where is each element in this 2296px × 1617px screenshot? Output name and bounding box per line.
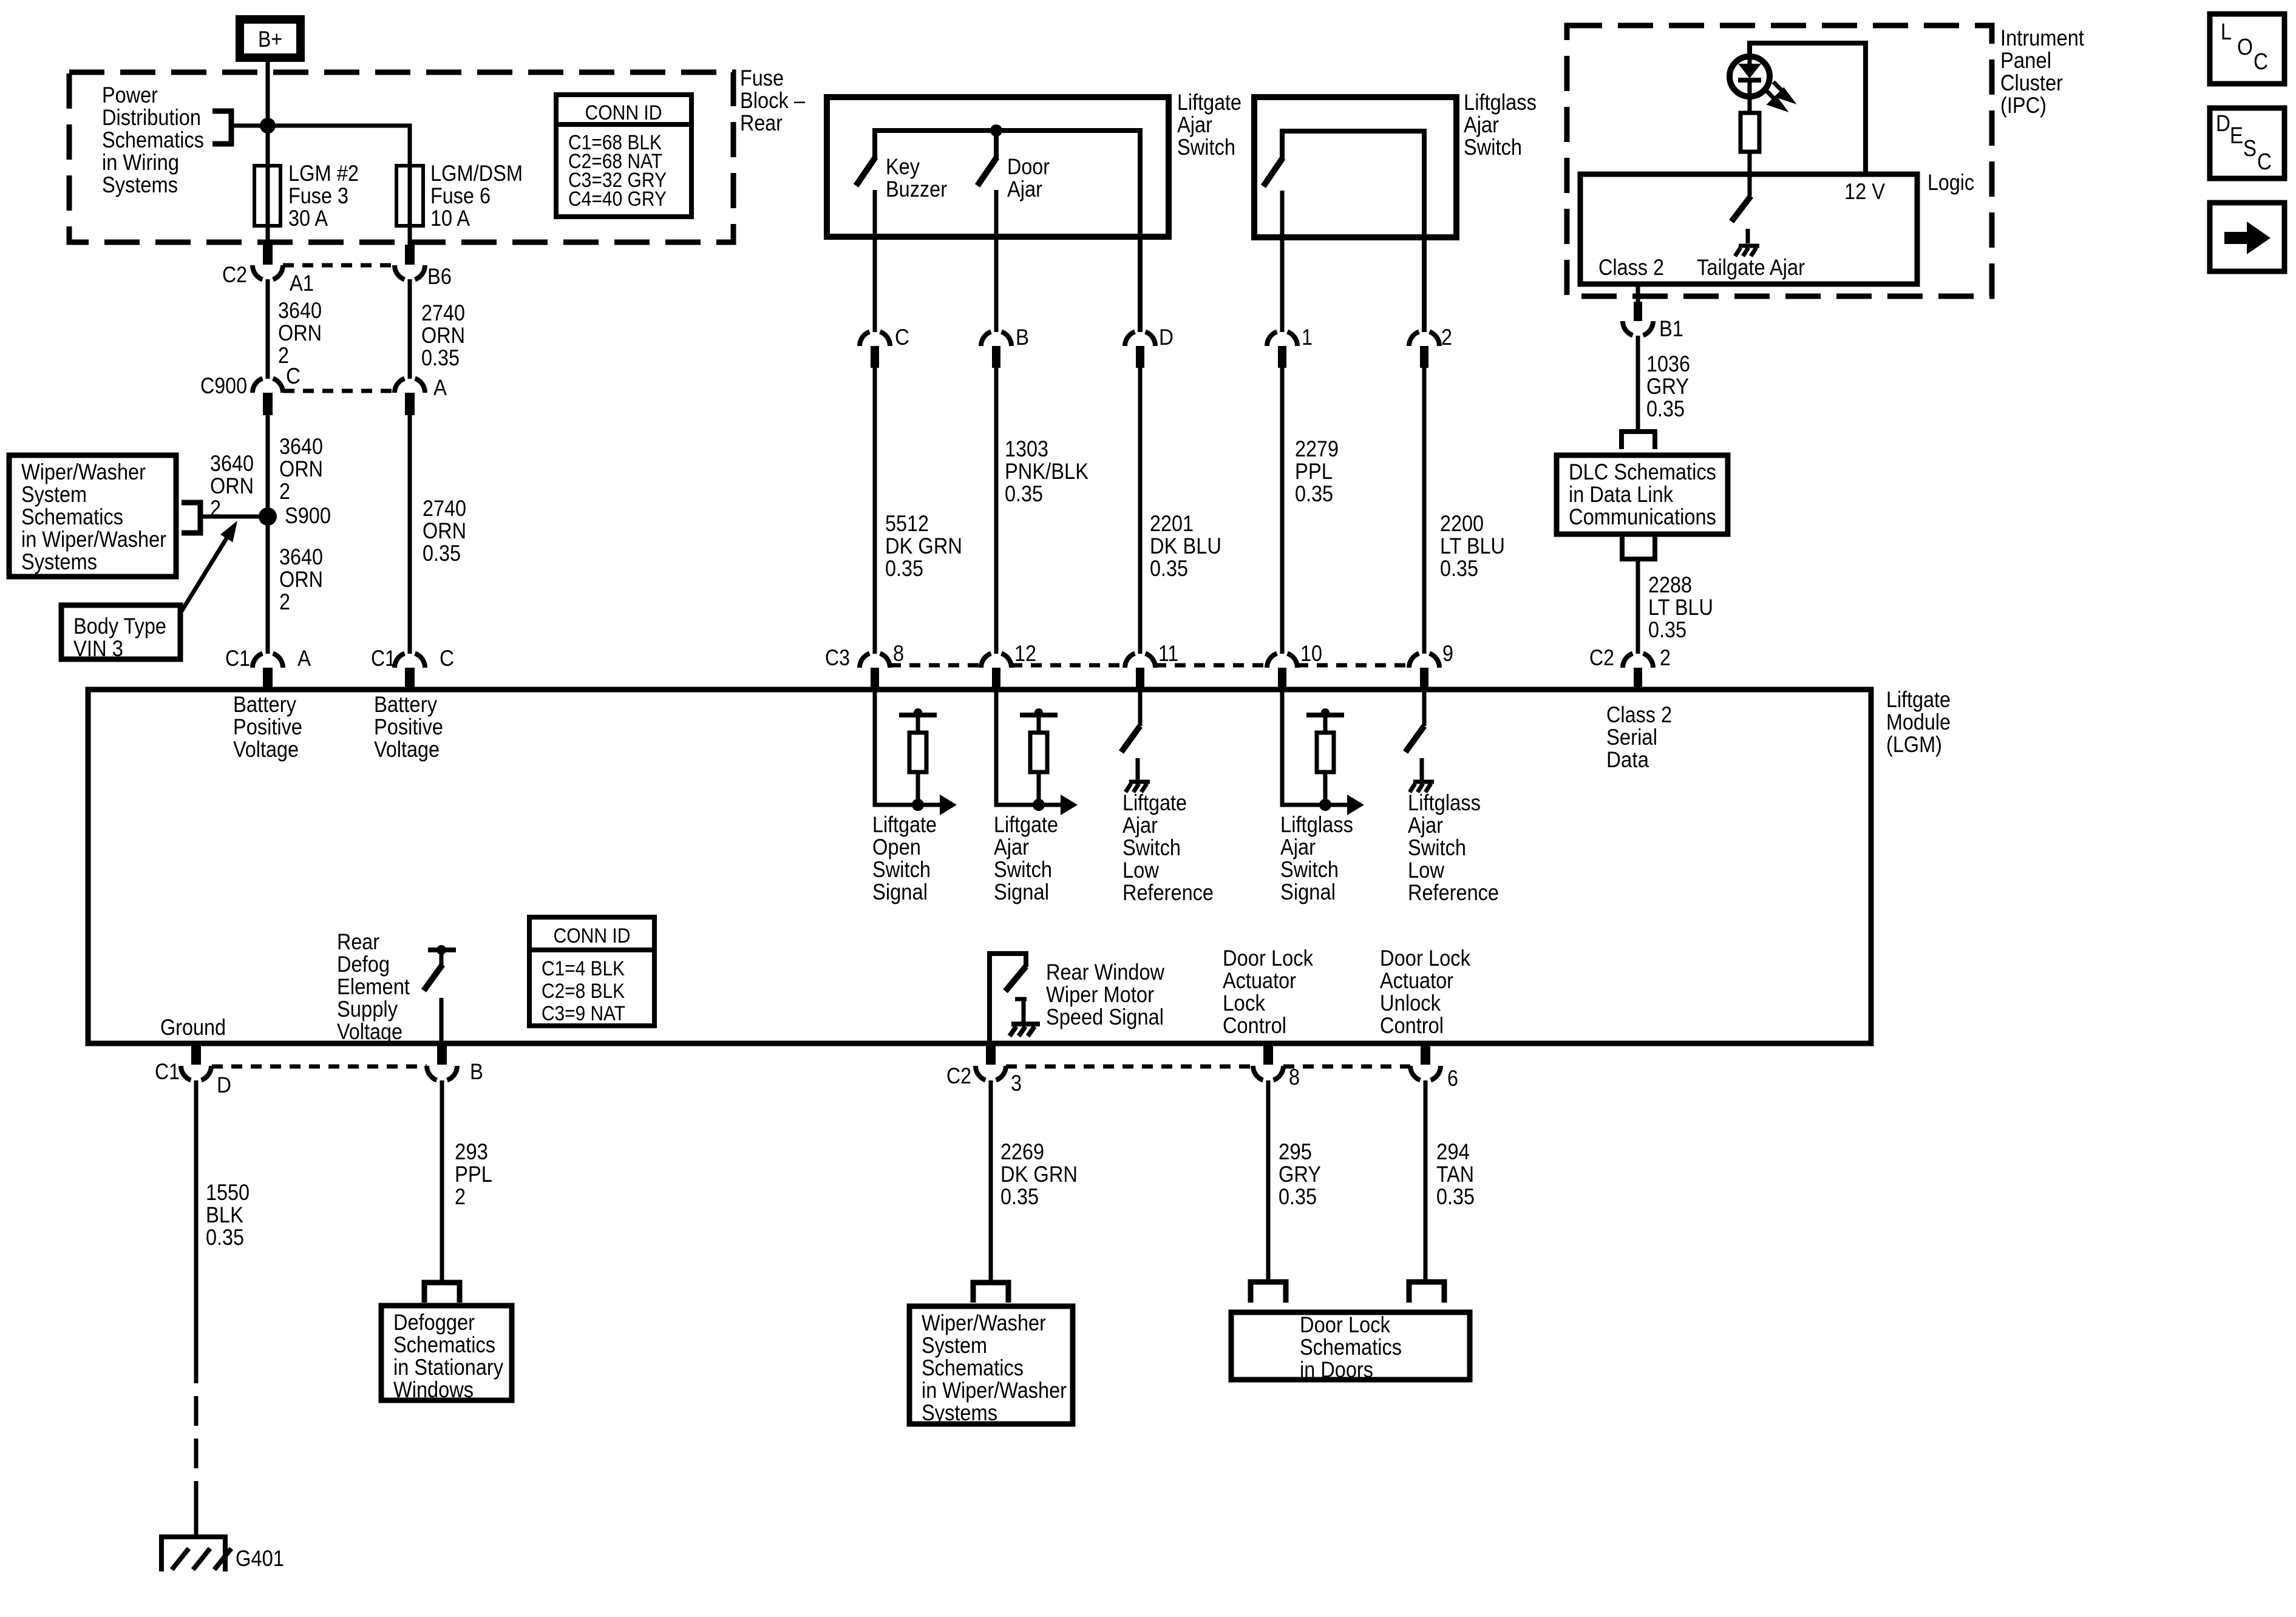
svg-text:Class 2: Class 2: [1598, 255, 1664, 280]
fuse LGM/DSM Fuse 6 10 A: [396, 166, 423, 226]
svg-text:Communications: Communications: [1569, 504, 1716, 529]
svg-text:0.35: 0.35: [1648, 617, 1686, 642]
svg-text:11: 11: [1158, 641, 1178, 666]
svg-text:Liftglass: Liftglass: [1464, 90, 1537, 115]
connector C900 pin A (dome): [395, 379, 425, 393]
svg-text:S: S: [2243, 136, 2257, 161]
node on switch bus: [990, 124, 1002, 137]
svg-text:1: 1: [1302, 325, 1313, 350]
dashed connector tie C-A: [284, 389, 394, 393]
svg-text:E: E: [2230, 123, 2243, 149]
svg-text:Unlock: Unlock: [1380, 991, 1441, 1015]
connector C900 pin C (dome): [253, 379, 283, 393]
wire bracket to S900: [200, 515, 264, 519]
svg-text:Wiper/Washer: Wiper/Washer: [922, 1310, 1046, 1335]
svg-text:O: O: [2237, 35, 2253, 60]
connector pin C (dome): [860, 332, 890, 347]
svg-text:2: 2: [279, 479, 290, 504]
svg-text:C2: C2: [946, 1063, 971, 1088]
wire pin D down to module: [1138, 368, 1143, 654]
dashed connector tie 8-6: [1283, 1065, 1410, 1069]
svg-text:DLC Schematics: DLC Schematics: [1569, 459, 1716, 484]
Instrument Panel Cluster dashed outline: [1567, 25, 1992, 296]
svg-text:ORN: ORN: [279, 567, 323, 592]
svg-text:Ajar: Ajar: [994, 835, 1029, 859]
svg-text:in Wiring: in Wiring: [102, 150, 179, 175]
Fuse Block - Rear dashed outline: [69, 72, 733, 242]
svg-text:Low: Low: [1408, 858, 1444, 883]
svg-text:0.35: 0.35: [1000, 1184, 1039, 1209]
svg-text:2269: 2269: [1000, 1139, 1044, 1164]
svg-text:Voltage: Voltage: [337, 1019, 402, 1044]
dashed connector tie A1-B6: [283, 263, 395, 268]
dashed connector tie D-B: [212, 1065, 427, 1069]
svg-text:9: 9: [1442, 641, 1453, 666]
svg-text:ORN: ORN: [210, 473, 254, 498]
svg-text:Switch: Switch: [1408, 835, 1466, 860]
CONN ID table (module): [529, 917, 654, 1026]
svg-text:2288: 2288: [1648, 572, 1692, 597]
svg-text:0.35: 0.35: [1295, 481, 1333, 506]
svg-text:Ground: Ground: [160, 1015, 226, 1040]
internal ground: [1126, 782, 1150, 792]
connector stub below module at x=1632: [986, 1046, 996, 1065]
svg-text:G401: G401: [236, 1546, 284, 1571]
internal supply tee: [1020, 713, 1058, 717]
ground G401: [161, 1537, 225, 1571]
Body Type VIN 3 box: [61, 605, 180, 659]
svg-text:Cluster: Cluster: [2000, 70, 2063, 95]
splice S900: [259, 507, 277, 526]
svg-text:CONN ID: CONN ID: [554, 924, 631, 947]
wire pin 1 down to module: [1280, 368, 1285, 654]
connector C2 pin A1 (cup): [263, 245, 273, 265]
internal pull-up resistor: [1030, 733, 1047, 772]
internal Rear Window Wiper speed switch: [990, 954, 1026, 1043]
svg-text:D: D: [217, 1073, 231, 1097]
connector C3 pin 10 (dome): [1267, 654, 1297, 668]
connector pin D (dome): [1125, 332, 1155, 347]
switch Tailgate Ajar: [1731, 196, 1751, 222]
svg-text:1550: 1550: [206, 1180, 250, 1205]
svg-text:C3=9 NAT: C3=9 NAT: [542, 1002, 625, 1025]
internal Rear Defog supply tee: [428, 947, 456, 952]
connector stub below module at x=728: [437, 1046, 447, 1065]
signal arrow: [1347, 795, 1364, 815]
svg-text:Door Lock: Door Lock: [1380, 946, 1470, 971]
svg-text:Fuse 3: Fuse 3: [288, 183, 348, 208]
svg-text:LGM #2: LGM #2: [288, 161, 359, 186]
connector pin 2 (dome): [1409, 332, 1439, 347]
svg-text:Door: Door: [1007, 154, 1050, 179]
fuse LGM #2 Fuse 3 30 A: [254, 166, 280, 226]
DESC nav box: [2210, 108, 2284, 178]
svg-text:Schematics: Schematics: [393, 1332, 495, 1357]
svg-text:GRY: GRY: [1646, 374, 1689, 399]
wire DLC to module pin C2 2: [1636, 559, 1640, 654]
wire A1 to C900 C: [266, 279, 270, 379]
svg-text:B6: B6: [427, 264, 452, 289]
pin wire into module at x=1441: [875, 690, 940, 805]
svg-text:12 V: 12 V: [1844, 179, 1885, 204]
svg-text:ORN: ORN: [421, 323, 465, 348]
Liftgate Module (LGM) box: [88, 690, 1871, 1043]
junction: [1319, 799, 1331, 811]
internal wiper ground: [1011, 1022, 1040, 1026]
bracket to Power Distribution Schematics: [212, 111, 231, 144]
svg-text:10: 10: [1300, 641, 1322, 666]
svg-text:294: 294: [1436, 1139, 1470, 1164]
svg-text:C: C: [286, 364, 301, 388]
svg-text:Signal: Signal: [872, 880, 928, 904]
svg-text:(IPC): (IPC): [2000, 93, 2046, 118]
connector C2 pin B6 (cup): [405, 245, 415, 265]
svg-text:Switch: Switch: [994, 857, 1052, 882]
svg-text:(LGM): (LGM): [1886, 732, 1942, 757]
svg-text:0.35: 0.35: [1005, 481, 1043, 506]
internal switch: [1121, 726, 1140, 752]
wire B1 to DLC: [1636, 336, 1640, 432]
Liftgate Ajar Switch box: [827, 97, 1169, 237]
svg-text:3640: 3640: [210, 451, 254, 476]
svg-text:C3: C3: [825, 645, 850, 670]
svg-text:Class 2: Class 2: [1606, 702, 1672, 727]
svg-text:TAN: TAN: [1436, 1162, 1474, 1187]
off-page bracket to DLC: [1622, 432, 1655, 449]
svg-text:Door Lock: Door Lock: [1300, 1312, 1390, 1337]
svg-text:Buzzer: Buzzer: [886, 177, 947, 202]
pin wire into module at x=2112: [1282, 690, 1348, 805]
svg-text:5512: 5512: [885, 511, 929, 536]
svg-text:System: System: [922, 1333, 987, 1358]
dashed connector tie C3 row: [890, 663, 981, 668]
connector C1 pin C (dome): [395, 654, 425, 668]
svg-text:Actuator: Actuator: [1380, 968, 1453, 993]
svg-text:1303: 1303: [1005, 436, 1048, 461]
off-page bracket to Wiper/Washer Schematics: [973, 1283, 1008, 1303]
svg-text:Switch: Switch: [1177, 135, 1235, 160]
svg-text:C1: C1: [155, 1059, 180, 1084]
svg-text:DK GRN: DK GRN: [1000, 1162, 1078, 1187]
svg-text:Signal: Signal: [994, 880, 1049, 904]
svg-text:Liftgate: Liftgate: [994, 812, 1058, 837]
internal ground: [1410, 782, 1434, 792]
svg-text:DK BLU: DK BLU: [1150, 534, 1221, 558]
svg-text:295: 295: [1279, 1139, 1312, 1164]
Door Lock Schematics box: [1231, 1312, 1470, 1380]
switch Liftglass Ajar: [1263, 158, 1283, 186]
svg-text:Liftglass: Liftglass: [1280, 812, 1353, 837]
wire 295 GRY: [1266, 1080, 1271, 1281]
svg-text:2740: 2740: [421, 300, 465, 325]
svg-text:L: L: [2221, 19, 2232, 45]
svg-text:LT BLU: LT BLU: [1648, 595, 1713, 620]
Defogger Schematics box: [381, 1306, 512, 1400]
svg-text:C: C: [895, 325, 909, 350]
svg-text:10 A: 10 A: [430, 206, 470, 231]
Wiper/Washer System Schematics box: [909, 1306, 1073, 1424]
svg-text:A: A: [297, 646, 311, 671]
wire pin B down to module: [994, 368, 999, 654]
svg-text:Battery: Battery: [374, 692, 437, 717]
connector pin B (dome): [981, 332, 1011, 347]
svg-text:Defog: Defog: [337, 952, 390, 977]
svg-text:Switch: Switch: [1280, 857, 1339, 882]
svg-text:Rear Window: Rear Window: [1046, 960, 1164, 985]
svg-text:2: 2: [279, 589, 290, 614]
svg-text:2201: 2201: [1150, 511, 1194, 536]
svg-text:B: B: [1016, 325, 1029, 350]
svg-text:Low: Low: [1123, 858, 1159, 883]
svg-text:Ajar: Ajar: [1123, 813, 1158, 838]
svg-text:B1: B1: [1659, 316, 1683, 341]
node junction on B+ feed: [260, 118, 276, 134]
wire junction to Fuse 6 branch: [231, 126, 410, 166]
switch Key Buzzer: [856, 157, 875, 186]
svg-text:ORN: ORN: [278, 320, 322, 345]
wire Fuse 3 to connector C2 A1: [266, 226, 270, 245]
connector pin 8 (cup): [1253, 1066, 1283, 1080]
svg-text:Element: Element: [337, 974, 410, 999]
connector B1 (cup): [1634, 302, 1642, 321]
svg-text:Liftgate: Liftgate: [872, 812, 937, 837]
off-page bracket to Door Lock Schematics (unlock): [1409, 1282, 1444, 1303]
svg-text:Data: Data: [1606, 747, 1649, 772]
svg-text:3640: 3640: [278, 298, 322, 323]
svg-text:Tailgate Ajar: Tailgate Ajar: [1697, 255, 1805, 280]
svg-text:Distribution: Distribution: [102, 105, 201, 130]
svg-text:Battery: Battery: [233, 692, 296, 717]
callout arrow from Body Type VIN 3: [182, 534, 229, 611]
internal switch: [1405, 726, 1424, 752]
svg-text:B+: B+: [258, 27, 282, 52]
svg-text:ORN: ORN: [279, 456, 323, 481]
svg-text:Ajar: Ajar: [1280, 835, 1316, 859]
svg-text:Defogger: Defogger: [393, 1310, 475, 1335]
pin wire into module at x=2346: [1422, 690, 1427, 726]
connector C3 pin 12 (dome): [981, 654, 1011, 668]
svg-text:Actuator: Actuator: [1223, 968, 1296, 993]
svg-text:A1: A1: [290, 271, 314, 296]
IPC dropping resistor: [1741, 113, 1759, 152]
wire pin 2 down to module: [1422, 368, 1427, 654]
svg-text:Supply: Supply: [337, 997, 398, 1022]
arrow nav box: [2210, 203, 2284, 271]
wire 2269 DK GRN: [989, 1080, 993, 1281]
svg-text:in Stationary: in Stationary: [393, 1355, 503, 1380]
off-page bracket to Door Lock Schematics (lock): [1251, 1282, 1286, 1303]
svg-text:Rear: Rear: [337, 929, 379, 954]
svg-text:Ajar: Ajar: [1177, 112, 1212, 137]
svg-text:in Wiper/Washer: in Wiper/Washer: [21, 527, 166, 552]
svg-text:Wiper Motor: Wiper Motor: [1046, 982, 1154, 1007]
svg-text:PPL: PPL: [455, 1162, 492, 1187]
svg-text:Body Type: Body Type: [73, 614, 166, 639]
svg-text:ORN: ORN: [423, 518, 466, 543]
svg-text:C2=8 BLK: C2=8 BLK: [542, 980, 625, 1003]
svg-text:Windows: Windows: [393, 1377, 474, 1402]
svg-text:Wiper/Washer: Wiper/Washer: [21, 459, 146, 484]
svg-text:PNK/BLK: PNK/BLK: [1005, 459, 1089, 484]
svg-text:293: 293: [455, 1139, 488, 1164]
svg-text:Switch: Switch: [1123, 835, 1181, 860]
svg-text:Positive: Positive: [374, 714, 443, 739]
connector pin D (cup): [181, 1066, 211, 1080]
wire B+ down to Fuse 3: [266, 62, 270, 166]
svg-text:Liftgate: Liftgate: [1886, 687, 1951, 712]
svg-text:Ajar: Ajar: [1007, 177, 1042, 202]
Wiper/Washer System Schematics box: [9, 455, 176, 577]
off-page bracket to Defogger Schematics: [424, 1283, 460, 1303]
svg-text:Control: Control: [1223, 1013, 1286, 1038]
internal supply tee: [1306, 713, 1344, 717]
svg-text:C1: C1: [371, 646, 396, 671]
svg-text:12: 12: [1014, 641, 1036, 666]
svg-text:C1: C1: [225, 646, 250, 671]
svg-text:Systems: Systems: [102, 172, 178, 197]
svg-text:6: 6: [1447, 1066, 1458, 1091]
svg-text:BLK: BLK: [206, 1202, 243, 1227]
svg-text:3640: 3640: [279, 544, 323, 569]
pin wire into module at x=1641: [996, 690, 1061, 805]
svg-text:C2: C2: [222, 262, 247, 287]
svg-text:0.35: 0.35: [206, 1225, 244, 1250]
B+ battery feed terminal box: [240, 19, 301, 58]
svg-text:PPL: PPL: [1295, 459, 1333, 484]
connector C3 pin 11 (dome): [1125, 654, 1155, 668]
svg-text:C2: C2: [1589, 645, 1614, 670]
connector C3 pin 8 (dome): [860, 654, 890, 668]
svg-text:Intrument: Intrument: [2000, 25, 2085, 50]
connector stub below module at x=2089: [1263, 1046, 1273, 1065]
signal arrow: [940, 795, 957, 815]
svg-text:C1=4 BLK: C1=4 BLK: [542, 957, 625, 980]
svg-text:S900: S900: [285, 503, 331, 528]
wire 293 PPL 2: [440, 1080, 444, 1281]
connector pin 1 (dome): [1267, 332, 1297, 347]
internal supply tee: [899, 713, 937, 717]
internal pull-up resistor: [1317, 733, 1334, 772]
svg-text:Fuse: Fuse: [740, 66, 784, 90]
svg-text:Speed Signal: Speed Signal: [1046, 1005, 1164, 1029]
wire Fuse 6 to connector C2 B6: [408, 226, 412, 245]
svg-text:0.35: 0.35: [1436, 1184, 1475, 1209]
svg-text:Key: Key: [886, 154, 920, 179]
svg-text:Serial: Serial: [1606, 725, 1657, 750]
indicator LED: [1730, 56, 1770, 97]
wire S900 down to module pin A: [266, 517, 270, 654]
svg-text:Schematics: Schematics: [922, 1355, 1024, 1380]
Liftglass Ajar Switch box: [1254, 97, 1456, 237]
svg-text:GRY: GRY: [1279, 1162, 1321, 1187]
svg-text:Liftgate: Liftgate: [1177, 90, 1241, 115]
svg-text:Power: Power: [102, 83, 158, 107]
signal arrow: [1061, 795, 1078, 815]
svg-text:3: 3: [1011, 1071, 1022, 1096]
svg-text:Logic: Logic: [1927, 170, 1974, 195]
off-page bracket from DLC: [1622, 536, 1655, 559]
svg-text:8: 8: [893, 641, 904, 666]
svg-text:Systems: Systems: [21, 549, 97, 574]
svg-text:0.35: 0.35: [1150, 556, 1188, 581]
internal Rear Defog switch: [424, 964, 443, 991]
connector C2 pin 2 (dome): [1623, 654, 1653, 668]
wire C900 A down to module pin C: [408, 415, 412, 654]
svg-text:Lock: Lock: [1223, 991, 1265, 1015]
connector C1 pin A (dome): [253, 654, 283, 668]
svg-text:2: 2: [1441, 325, 1452, 350]
svg-text:Signal: Signal: [1280, 880, 1336, 904]
svg-text:Door Lock: Door Lock: [1223, 946, 1313, 971]
svg-text:LT BLU: LT BLU: [1440, 534, 1505, 558]
svg-text:in Doors: in Doors: [1300, 1357, 1373, 1382]
svg-text:Rear: Rear: [740, 110, 783, 135]
connector stub below module at x=323: [191, 1046, 201, 1065]
connector pin B (cup): [427, 1066, 457, 1080]
svg-text:C4=40 GRY: C4=40 GRY: [568, 188, 667, 211]
svg-text:0.35: 0.35: [1279, 1184, 1317, 1209]
svg-text:2: 2: [1660, 645, 1671, 670]
svg-text:Schematics: Schematics: [1300, 1335, 1402, 1360]
svg-text:2740: 2740: [423, 496, 466, 521]
connector pin 3 (cup): [976, 1066, 1006, 1080]
wire B6 to C900 A: [408, 279, 412, 379]
svg-text:1036: 1036: [1646, 351, 1690, 376]
inner switch wire: [1282, 131, 1424, 332]
svg-text:Block –: Block –: [740, 88, 805, 113]
svg-text:0.35: 0.35: [1646, 396, 1685, 421]
svg-text:2: 2: [455, 1184, 466, 1209]
svg-text:C: C: [2257, 149, 2272, 175]
svg-text:Systems: Systems: [922, 1400, 997, 1425]
svg-text:in Wiper/Washer: in Wiper/Washer: [922, 1378, 1067, 1403]
Logic box: [1580, 174, 1917, 284]
svg-text:LGM/DSM: LGM/DSM: [430, 161, 523, 186]
svg-text:Reference: Reference: [1123, 880, 1214, 905]
bracket wiper/washer tap: [182, 503, 200, 533]
CONN ID table (fuse block): [556, 95, 691, 217]
svg-text:Switch: Switch: [1464, 135, 1522, 160]
connector stub below module at x=2348: [1421, 1046, 1430, 1065]
wire LED top feed: [1750, 43, 1866, 174]
svg-text:0.35: 0.35: [423, 541, 461, 566]
svg-text:DK GRN: DK GRN: [885, 534, 962, 558]
junction: [1033, 799, 1045, 811]
wire pin C down to module: [873, 368, 877, 654]
DLC Schematics box: [1557, 455, 1728, 534]
wire C900 C to S900: [266, 415, 270, 517]
svg-text:C: C: [2254, 49, 2268, 75]
svg-text:C900: C900: [200, 373, 247, 398]
svg-text:Liftgate: Liftgate: [1123, 790, 1187, 815]
switch Door Ajar: [994, 131, 999, 158]
svg-text:D: D: [1159, 325, 1173, 350]
wire 294 TAN: [1424, 1080, 1428, 1281]
svg-text:C: C: [440, 646, 454, 671]
svg-text:A: A: [433, 375, 447, 400]
svg-text:Switch: Switch: [872, 857, 931, 882]
svg-text:2200: 2200: [1440, 511, 1484, 536]
LOC nav box: [2210, 14, 2284, 84]
svg-text:3640: 3640: [279, 434, 323, 459]
svg-text:B: B: [470, 1059, 483, 1084]
svg-text:Ajar: Ajar: [1408, 813, 1443, 838]
svg-text:Voltage: Voltage: [233, 737, 299, 762]
svg-text:30 A: 30 A: [288, 206, 328, 231]
svg-text:VIN 3: VIN 3: [73, 636, 123, 661]
internal pull-up resistor: [909, 733, 926, 772]
wire Class 2 out of IPC: [1636, 284, 1640, 303]
